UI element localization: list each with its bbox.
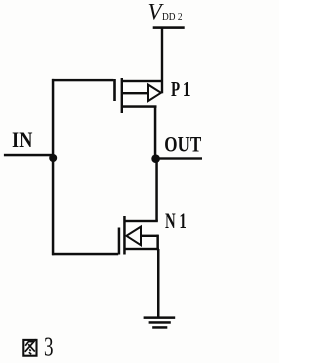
svg-text:IN: IN	[12, 127, 32, 152]
svg-text:N 1: N 1	[165, 209, 187, 233]
wire N1 source to ground	[157, 249, 160, 318]
node IN junction	[49, 154, 57, 162]
transistor N1 (NMOS)	[118, 216, 159, 255]
wire P1 gate to input bus	[52, 79, 113, 81]
label VDD2	[148, 0, 183, 25]
wire VDD2 to P1 source	[161, 27, 163, 93]
wire OUT node to N1 drain	[155, 159, 158, 221]
wire input bus (vertical)	[52, 79, 55, 255]
wire IN	[4, 154, 54, 157]
transistor P1 (PMOS)	[113, 78, 163, 113]
caption 图 3	[23, 332, 53, 362]
wire P1 drain to OUT node	[154, 106, 157, 159]
svg-text:DD 2: DD 2	[162, 12, 183, 23]
svg-text:OUT: OUT	[164, 132, 201, 157]
svg-text:3: 3	[44, 332, 54, 362]
wire input bus to N1 gate	[52, 253, 118, 256]
node OUT junction	[151, 154, 160, 163]
svg-text:P 1: P 1	[171, 77, 191, 101]
ground	[144, 316, 176, 328]
wire OUT	[156, 157, 203, 159]
power VDD2 terminal bar	[153, 26, 185, 29]
